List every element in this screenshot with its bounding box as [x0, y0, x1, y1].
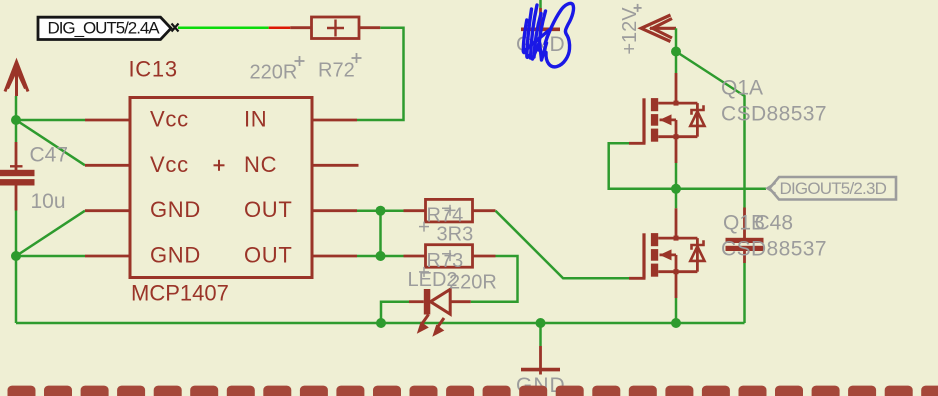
svg-text:NC: NC — [244, 152, 277, 177]
wire LED anode to gnd bus — [381, 302, 409, 323]
svg-text:GND: GND — [150, 197, 201, 222]
wire segment highlighted red — [269, 26, 291, 29]
wire OUT1 to R74 — [357, 209, 404, 212]
wire Q1A gate loop — [609, 143, 676, 189]
svg-text:10u: 10u — [31, 190, 66, 213]
svg-text:C47: C47 — [30, 144, 69, 167]
net label flag DIGOUT5/2.3D — [767, 177, 896, 200]
pin Vcc 2 stub — [85, 164, 130, 167]
wire output node to label — [676, 188, 766, 191]
wire OUT2 to R73 — [357, 255, 404, 258]
op-amp driver IC13 MCP1407 body — [130, 98, 312, 278]
wire node1 down to C47 — [15, 120, 18, 142]
wire Q1B source to gnd bus — [675, 298, 678, 323]
capacitor C47 — [0, 142, 68, 213]
bottom GND symbol — [516, 323, 566, 396]
transistor Q1B CSD88537 — [629, 208, 705, 298]
origin cross of 220R — [295, 56, 305, 66]
resistor R74 — [404, 199, 496, 222]
origin cross R74 — [419, 205, 456, 232]
wire Q1A source to output node — [675, 163, 678, 189]
wire node2 to GND pin4 — [16, 255, 85, 258]
pin OUT 1 stub — [312, 209, 357, 212]
net label flag DIG_OUT5/2.4A — [38, 17, 171, 39]
wire R72 to IN pin — [357, 28, 404, 120]
transistor Q1A CSD88537 — [629, 73, 705, 163]
svg-text:Q1B: Q1B — [723, 212, 765, 235]
node junction dot +12V — [671, 47, 681, 57]
svg-text:OUT: OUT — [244, 243, 293, 268]
origin cross of +12V — [634, 4, 642, 12]
node junction dot left-bottom — [11, 251, 21, 261]
IC13 pin names — [150, 107, 293, 268]
wire gnd bus horizontal — [16, 322, 745, 325]
origin cross of R72 — [352, 53, 362, 63]
xref marker x — [172, 24, 179, 32]
svg-text:DIGOUT5/2.3D: DIGOUT5/2.3D — [780, 179, 887, 198]
svg-text:CSD88537: CSD88537 — [721, 103, 827, 126]
svg-text:220R: 220R — [250, 62, 298, 84]
svg-text:Q1A: Q1A — [721, 77, 763, 100]
wire R74 to Q1B gate — [496, 211, 630, 279]
wire C47 to node2 — [15, 211, 18, 257]
node junction dot OUT2 — [376, 251, 386, 261]
pin IN stub — [312, 119, 357, 122]
wire diagonal node1 to Vcc pin2 — [16, 120, 85, 165]
IC13 origin cross — [214, 160, 225, 171]
svg-text:R72: R72 — [318, 60, 355, 82]
svg-text:GND: GND — [150, 243, 201, 268]
dashed sheet border bottom — [8, 386, 938, 396]
origin cross R73 — [419, 250, 456, 277]
pin GND 3 stub — [85, 209, 130, 212]
wire +12V node down to Q1A drain — [675, 52, 678, 74]
power supply arrow P+ left — [5, 62, 28, 96]
wire diagonal +12V node to C48 — [676, 52, 745, 208]
wire diagonal node2 to GND pin3 — [16, 211, 85, 256]
pin GND 4 stub — [85, 255, 130, 258]
svg-text:3R3: 3R3 — [437, 224, 474, 246]
resistor R72 — [290, 17, 380, 39]
wire node2 down to gnd bus — [15, 256, 18, 323]
node junction dot OUT1 — [376, 206, 386, 216]
svg-text:+12V: +12V — [619, 7, 641, 55]
wire node1 to Vcc pin1 — [16, 119, 85, 122]
capacitor C48 — [726, 208, 794, 264]
wire OUT1 to OUT2 vertical — [379, 211, 382, 256]
svg-text:Vcc: Vcc — [150, 107, 189, 132]
resistor R73 — [404, 245, 496, 268]
svg-text:IN: IN — [244, 107, 267, 132]
wire C48 to gnd bus — [743, 263, 746, 323]
node junction dot gnd symbol — [536, 318, 546, 328]
top GND symbol — [516, 0, 566, 56]
wire output node down to Q1B drain — [675, 189, 678, 209]
svg-text:MCP1407: MCP1407 — [131, 281, 229, 306]
wire arrow to node1 — [15, 96, 18, 120]
svg-text:OUT: OUT — [244, 197, 293, 222]
pin OUT 2 stub — [312, 255, 357, 258]
+12V supply symbol — [641, 15, 676, 42]
node junction dot left-top — [11, 115, 21, 125]
svg-text:DIG_OUT5/2.4A: DIG_OUT5/2.4A — [48, 19, 161, 38]
node junction dot output — [671, 184, 681, 194]
wire R73 to LED cathode loop — [471, 256, 518, 302]
svg-text:IC13: IC13 — [129, 57, 178, 82]
wire +12V to node — [675, 28, 678, 51]
node junction dot Q1B source — [671, 318, 681, 328]
LED2 — [409, 289, 471, 337]
svg-text:CSD88537: CSD88537 — [721, 238, 827, 261]
svg-text:220R: 220R — [449, 272, 497, 294]
pin NC stub — [312, 164, 359, 167]
svg-text:Vcc: Vcc — [150, 152, 189, 177]
pin Vcc 1 stub — [85, 119, 130, 122]
wire label to R72 highlighted green — [178, 26, 269, 29]
node junction dot LED gnd — [376, 318, 386, 328]
blue ink scribble annotation — [523, 3, 573, 66]
